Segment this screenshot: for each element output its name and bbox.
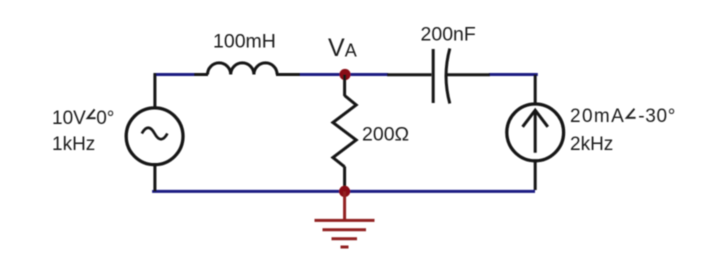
svg-text:10V: 10V xyxy=(52,108,86,129)
svg-text:200nF: 200nF xyxy=(421,23,476,45)
capacitor C1 lead left (black) xyxy=(387,73,432,76)
capacitor C1 right curved plate xyxy=(446,49,450,104)
wire right vertical stub bottom (black) xyxy=(534,161,537,190)
ground lead vertical (dark red) xyxy=(343,191,346,219)
wire left vertical stub top (black) xyxy=(153,73,156,108)
wire top-left blue segment xyxy=(154,73,196,76)
ground bar 1 xyxy=(315,219,375,222)
svg-text:100mH: 100mH xyxy=(213,31,276,53)
current source I1 arrow xyxy=(523,110,548,153)
wire bottom blue segment xyxy=(154,190,535,191)
svg-text:1kHz: 1kHz xyxy=(52,134,95,155)
svg-text:A: A xyxy=(345,41,357,61)
angle symbol for 20mA phase xyxy=(627,109,636,118)
current source I1 circle xyxy=(507,104,564,161)
wire right vertical stub top (black) xyxy=(534,75,537,105)
capacitor C1 left plate xyxy=(432,49,435,103)
ground bar 2 xyxy=(323,228,367,231)
node A dot (top) xyxy=(339,69,350,80)
ground bar 4 xyxy=(341,246,349,249)
capacitor C1 lead right (black) xyxy=(447,73,490,76)
resistor R1 lead top (black) xyxy=(343,75,346,97)
node ground junction dot (bottom) xyxy=(339,186,350,197)
svg-text:20mA: 20mA xyxy=(570,106,625,127)
wire top-middle blue segment (node VA region) xyxy=(299,73,388,76)
wire top-right blue segment xyxy=(489,75,536,77)
resistor R1 200ohm zigzag xyxy=(333,96,356,167)
svg-text:2kHz: 2kHz xyxy=(570,134,613,155)
inductor L1 100mH xyxy=(208,63,278,75)
inductor L1 leads (black) xyxy=(194,73,300,76)
angle symbol for 10V phase xyxy=(88,109,96,118)
svg-text:V: V xyxy=(328,34,345,62)
voltage source V1 circle xyxy=(126,108,183,165)
svg-text:0°: 0° xyxy=(96,108,114,129)
resistor R1 lead bottom (black) xyxy=(343,167,346,192)
svg-text:-30°: -30° xyxy=(638,106,676,127)
ground bar 3 xyxy=(332,237,358,240)
wire left vertical stub bottom (black) xyxy=(153,164,156,191)
voltage source V1 sine symbol xyxy=(142,128,168,140)
svg-text:200Ω: 200Ω xyxy=(362,124,409,146)
